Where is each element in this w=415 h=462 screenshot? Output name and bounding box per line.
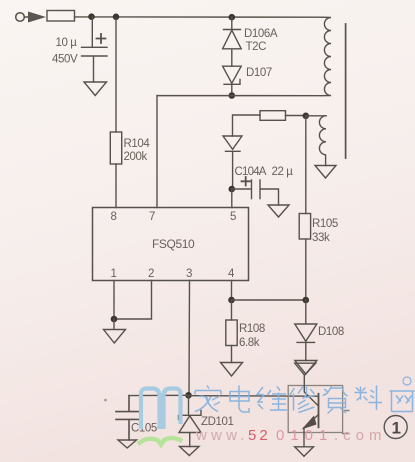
resistor (top of aux) (260, 111, 286, 121)
svg-text:5: 5 (230, 211, 236, 223)
input terminal (16, 13, 25, 22)
optocoupler emitter arrow (302, 416, 317, 430)
wire to optocoupler (189, 395, 319, 398)
ground of pin1-2 (104, 319, 126, 343)
svg-text:8: 8 (111, 211, 117, 223)
resistor R104 (115, 19, 117, 132)
wire pin4 (231, 281, 233, 301)
aux winding wire (306, 115, 326, 117)
svg-text:7: 7 (149, 211, 155, 223)
input arrow symbol (28, 12, 46, 23)
node pin5 VCC (229, 186, 236, 193)
diode D107 (223, 66, 242, 95)
node R105 bottom (303, 297, 310, 304)
svg-text:200k: 200k (124, 151, 148, 163)
optocoupler emitter pin (303, 428, 305, 447)
svg-text:52: 52 (248, 427, 271, 444)
watermark registered mark (403, 377, 411, 385)
char jia (195, 386, 221, 412)
svg-text:33k: 33k (312, 232, 330, 244)
ground of C105 (118, 440, 137, 448)
wire pin1 (113, 281, 115, 320)
svg-text:FSQ510: FSQ510 (152, 237, 195, 251)
svg-text:0101: 0101 (276, 427, 333, 444)
wire top rail (24, 16, 322, 18)
svg-text:D108: D108 (318, 326, 344, 338)
svg-text:D106A: D106A (244, 28, 278, 40)
svg-text:R108: R108 (239, 323, 265, 335)
diode VCC rectifier (223, 136, 242, 189)
wire pin7 to transformer (157, 96, 322, 208)
svg-text:450V: 450V (52, 54, 78, 66)
ground of C104A (268, 205, 289, 217)
char wang (390, 391, 415, 412)
optocoupler right stubs (343, 411, 349, 434)
watermark book swoosh (138, 438, 182, 445)
svg-text:1: 1 (392, 419, 401, 438)
ground of 10u cap (84, 82, 107, 96)
char zi (323, 386, 348, 414)
ground of D108 (295, 361, 317, 375)
page number circled 1 (384, 416, 407, 439)
svg-text:C104A: C104A (235, 166, 267, 178)
wire resistor to aux node (286, 115, 306, 117)
char dian (230, 386, 249, 413)
transformer core (345, 24, 347, 158)
watermark url www.520101.com (195, 427, 387, 444)
svg-text:2: 2 (148, 268, 154, 280)
svg-text:6.8k: 6.8k (239, 337, 260, 349)
svg-text:R104: R104 (124, 138, 151, 150)
svg-text:3: 3 (186, 268, 192, 280)
diode D108 (295, 300, 317, 361)
svg-text:22 µ: 22 µ (272, 166, 294, 178)
char liao (355, 386, 383, 411)
transformer aux winding (319, 116, 326, 166)
capacitor 10u 450V (82, 17, 108, 82)
fusible resistor box (47, 11, 75, 22)
ground of aux winding (315, 166, 336, 179)
svg-text:C105: C105 (131, 423, 157, 435)
optocoupler box (288, 386, 342, 433)
plus sign of 10u cap (97, 34, 106, 43)
node pin4 (228, 297, 235, 304)
node pin1-2 (111, 316, 118, 323)
char wei (257, 387, 287, 411)
resistor R108 (231, 300, 233, 320)
wire pin4 to R105 (232, 299, 306, 301)
node aux winding (303, 113, 310, 120)
node D107 bottom (229, 92, 236, 99)
resistor R105 (305, 116, 307, 214)
ground of ZD101 (180, 447, 200, 456)
capacitor C104A (232, 180, 279, 205)
paper speck (104, 399, 107, 402)
wire pin5 stub (231, 189, 233, 208)
char xiu (289, 387, 315, 413)
ground of R108 (221, 363, 243, 377)
ground above optocoupler (295, 363, 316, 385)
svg-text:T2C: T2C (246, 41, 267, 53)
transformer primary winding (322, 17, 331, 96)
optocoupler transistor (318, 394, 320, 428)
wire to C105 (129, 394, 189, 396)
node at R104 (113, 13, 120, 20)
plus sign of C104A (242, 177, 251, 186)
ground of optocoupler (295, 447, 314, 456)
svg-text:www.: www. (195, 427, 249, 444)
wire node ZD101 (185, 392, 192, 399)
wire pin2 (114, 281, 152, 320)
svg-text:R105: R105 (312, 218, 338, 230)
svg-text:10 µ: 10 µ (56, 37, 78, 49)
zener ZD101 (179, 395, 202, 446)
op IC U101 FSQ510 (93, 208, 249, 281)
diode D106A (229, 14, 236, 21)
svg-text:.com: .com (334, 427, 387, 444)
svg-text:4: 4 (228, 268, 235, 280)
watermark book icon (141, 389, 181, 430)
svg-text:D107: D107 (246, 67, 272, 79)
capacitor C105 (116, 396, 140, 440)
wire VCC rectifier branch (233, 115, 261, 136)
watermark chinese characters (195, 377, 415, 414)
svg-text:1: 1 (111, 268, 117, 280)
node at C101 (88, 13, 95, 20)
wire pin3 (188, 281, 191, 396)
